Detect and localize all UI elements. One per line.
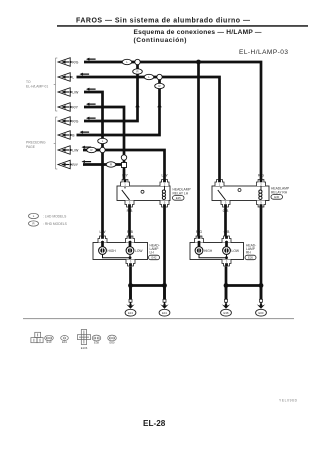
page arrow 5 (R/G) — [58, 117, 72, 126]
junction row1 — [135, 59, 140, 64]
ground E60 — [256, 287, 267, 316]
bracket group 2 — [54, 117, 58, 169]
svg-text:E60: E60 — [259, 311, 264, 315]
wire row4 R/Y down — [84, 107, 124, 156]
legend LHD oval — [29, 213, 39, 218]
svg-text:LH: LH — [150, 251, 155, 255]
svg-text:YEL096D: YEL096D — [279, 399, 298, 403]
node ground RH lamp — [224, 283, 229, 288]
connector view oval E60 — [108, 335, 117, 344]
ground E38 — [221, 287, 232, 316]
svg-text:R/G: R/G — [196, 230, 202, 234]
svg-text:EL-H/LAMP-01: EL-H/LAMP-01 — [26, 85, 48, 89]
terminal 5 relay RH — [257, 201, 266, 208]
terminal 2 relay LH — [160, 180, 169, 187]
svg-text:L/W: L/W — [72, 90, 79, 94]
arrow marker row7 — [82, 146, 92, 149]
svg-text:R/G: R/G — [72, 119, 78, 123]
svg-text:E30: E30 — [274, 195, 279, 199]
connector view oval E38 — [92, 335, 101, 344]
splice oval L row2 — [144, 74, 154, 79]
coil relay LH — [164, 186, 166, 190]
page arrow 4 (R/Y) — [58, 103, 72, 112]
svg-text:R/Y: R/Y — [72, 105, 78, 109]
node ground LH relay — [162, 283, 167, 288]
bracket group 1 — [54, 58, 58, 111]
ground E41 — [159, 287, 170, 316]
svg-text:E41: E41 — [162, 311, 167, 315]
svg-text:FAROS — Sin sistema de alumbra: FAROS — Sin sistema de alumbrado diurno … — [76, 18, 250, 25]
connector square E row8 — [122, 163, 127, 168]
wire row5 R/G up to row1 — [84, 64, 138, 121]
svg-text:R: R — [158, 84, 160, 88]
wire row2 L to headlamp relay RH — [77, 77, 220, 180]
svg-text:RH: RH — [246, 251, 251, 255]
svg-text:R: R — [136, 70, 138, 74]
terminal 3 lamp RH — [222, 260, 231, 267]
svg-text:R/B: R/B — [127, 230, 133, 234]
svg-text:L: L — [72, 75, 74, 79]
arrow marker row5 — [86, 117, 96, 120]
svg-text:L/W: L/W — [72, 148, 79, 152]
svg-text:HIGH: HIGH — [204, 249, 213, 253]
arrow marker row6 — [80, 131, 90, 134]
svg-text:RELAY RH: RELAY RH — [271, 190, 288, 194]
svg-text:L/W: L/W — [99, 230, 106, 234]
terminal 2 lamp LH — [126, 236, 135, 243]
wire relay RH coil ground — [260, 207, 263, 299]
bulb LOW lamp LH — [129, 241, 132, 247]
terminal 2 relay RH — [257, 180, 266, 187]
svg-text:E60: E60 — [110, 340, 115, 344]
arrow marker row3 — [86, 88, 96, 91]
bulb HIGH lamp RH — [198, 241, 201, 247]
junction row7 — [100, 147, 105, 152]
header rule — [57, 25, 308, 27]
svg-text:R/G: R/G — [72, 60, 78, 64]
svg-text:PAGE: PAGE — [26, 145, 36, 149]
page arrow 8 (R/Y) — [58, 160, 72, 169]
page arrow 1 (R/G) — [58, 58, 72, 67]
connector ref E25 — [173, 196, 185, 201]
lamp box HEAD LAMP RH — [190, 243, 244, 260]
svg-text:HIGH: HIGH — [108, 249, 117, 253]
connector ref E26 — [245, 255, 256, 260]
node ground LH lamp — [128, 283, 133, 288]
svg-text:E38: E38 — [94, 340, 99, 344]
terminal 5 relay LH — [160, 201, 169, 208]
svg-text:R: R — [110, 163, 112, 167]
wire relay LH coil ground — [163, 207, 166, 299]
node row1 junction — [196, 60, 201, 65]
junction row2 — [157, 74, 162, 79]
svg-text:G/B: G/B — [224, 230, 231, 234]
svg-text:LOW: LOW — [135, 249, 143, 253]
svg-text:LOW: LOW — [232, 249, 240, 253]
terminal 1 lamp LH — [98, 236, 107, 243]
page arrow 7 (L/W) — [58, 146, 72, 155]
separator line — [23, 317, 294, 320]
splice oval L row1 — [122, 59, 132, 64]
terminal 3 lamp LH — [126, 260, 135, 267]
arrow marker row4 — [86, 103, 96, 106]
svg-text:Esquema de conexiones — H/LAMP: Esquema de conexiones — H/LAMP — — [134, 29, 262, 36]
legend RHD oval — [29, 221, 39, 226]
svg-text:E41: E41 — [62, 340, 67, 344]
svg-text:R/B: R/B — [127, 209, 133, 213]
wire ground link LH — [131, 284, 165, 287]
svg-text:R: R — [32, 222, 34, 226]
coil relay RH — [260, 186, 262, 190]
node ground RH relay — [259, 283, 264, 288]
relay box HEADLAMP RELAY RH — [212, 186, 269, 201]
terminal 2 lamp RH — [222, 236, 231, 243]
splice oval R row7 — [87, 147, 97, 152]
wire relay RH out G/B to headlamp RH — [224, 207, 227, 237]
svg-text:E38: E38 — [224, 311, 229, 315]
connector view cross-shape — [77, 330, 90, 345]
svg-text:E13: E13 — [128, 311, 133, 315]
arrow marker row8 — [82, 160, 92, 163]
splice oval R row8 — [106, 162, 116, 167]
lamp LH internal ground wire — [103, 254, 131, 259]
svg-text:: LHD MODELS: : LHD MODELS — [43, 214, 67, 218]
wire junction drop to headlamp RH high — [197, 62, 200, 237]
terminal 3 relay LH — [125, 201, 134, 208]
connector view T-shape — [31, 332, 43, 342]
wire ground link RH — [226, 284, 261, 287]
arrow marker row1 — [86, 58, 96, 61]
arrow marker up row6 branch — [157, 104, 162, 110]
terminal 1 relay LH — [121, 180, 130, 187]
svg-text:E13: E13 — [47, 340, 52, 344]
terminal 1 relay RH — [215, 180, 224, 187]
wire row6 B up to row2 — [77, 79, 160, 135]
connector view oval E13 — [45, 335, 54, 344]
node lamp RH common — [225, 256, 228, 259]
wire headlamp RH ground — [225, 267, 228, 300]
wire row1 R/G to headlamp relay RH — [84, 62, 261, 180]
splice oval L row3 branch — [98, 138, 108, 143]
svg-text:E26: E26 — [248, 256, 253, 260]
bulb HIGH lamp LH — [101, 241, 104, 247]
page arrow 3 (L/W) — [58, 88, 72, 97]
svg-text:E25: E25 — [176, 196, 181, 200]
svg-text:EL-28: EL-28 — [143, 419, 166, 428]
svg-text:R/G: R/G — [258, 173, 264, 177]
switch relay LH — [122, 190, 130, 200]
svg-text:EL-H/LAMP-03: EL-H/LAMP-03 — [239, 49, 288, 56]
connector ref E42 — [149, 255, 160, 260]
arrow marker row2 — [80, 73, 90, 76]
svg-text:PRECEDING: PRECEDING — [26, 141, 46, 145]
lamp RH internal ground wire — [199, 254, 227, 259]
wire connector to relay LH terminal — [123, 160, 126, 180]
arrow marker up row5 branch — [135, 104, 140, 110]
page arrow 6 (B) — [58, 131, 72, 140]
ground E13 — [125, 287, 136, 316]
junction row4/row8 — [121, 155, 126, 160]
connector ref E30 — [271, 195, 283, 200]
lamp box HEAD LAMP LH — [93, 243, 148, 260]
switch relay RH — [218, 190, 226, 200]
wire row8 R/Y to connector — [83, 163, 122, 166]
svg-text:(Continuación): (Continuación) — [134, 37, 187, 44]
svg-text:E42: E42 — [152, 256, 157, 260]
svg-text:E106: E106 — [81, 346, 88, 350]
svg-text:RELAY LH: RELAY LH — [173, 191, 189, 195]
page arrow 2 (L) — [58, 73, 72, 82]
wire row7 L/W to relay LH — [83, 150, 165, 180]
splice oval R row2 branch — [155, 83, 165, 88]
svg-text:R/Y: R/Y — [122, 173, 128, 177]
bulb LOW lamp RH — [225, 241, 228, 247]
wire relay LH out R/B to headlamp LH — [128, 201, 131, 237]
terminal 1 lamp RH — [195, 236, 204, 243]
svg-text:TO: TO — [26, 80, 31, 84]
wire row3 L/W down to headlamp LH — [84, 92, 103, 237]
svg-text:L: L — [219, 173, 221, 177]
relay box HEADLAMP RELAY LH — [117, 186, 170, 201]
node lamp LH common — [129, 256, 132, 259]
terminal 3 relay RH — [221, 201, 230, 208]
connector view oval E41 — [61, 336, 69, 345]
svg-text:: RHD MODELS: : RHD MODELS — [43, 222, 68, 226]
svg-text:R/Y: R/Y — [72, 163, 78, 167]
pivot circle relay RH — [238, 189, 241, 192]
splice oval R row1 branch — [133, 69, 143, 74]
svg-text:R: R — [90, 148, 92, 152]
pivot circle relay LH — [141, 190, 144, 193]
svg-text:L/W: L/W — [161, 173, 168, 177]
svg-text:G/B: G/B — [223, 209, 230, 213]
wire headlamp LH ground — [129, 267, 132, 300]
